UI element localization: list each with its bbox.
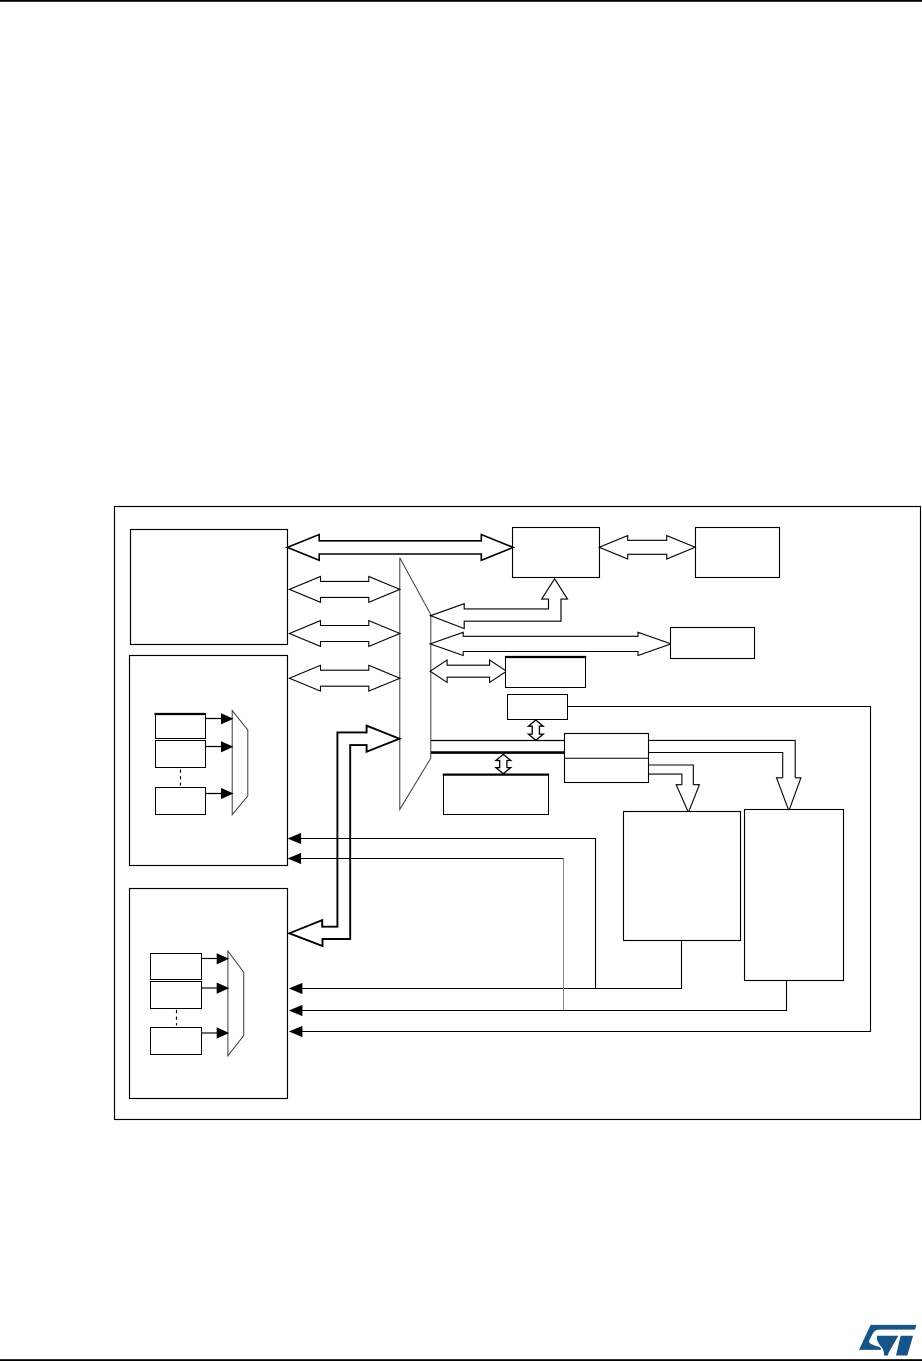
wire horizontal into peripheral-group-1 #2 xyxy=(300,858,564,860)
wide bus arrow CPU-to-USB block xyxy=(287,535,513,561)
wire tall-right-box feedback down and left xyxy=(302,981,787,1011)
arrowhead into peripheral-group-2 (register feedback) xyxy=(289,1026,303,1037)
sub-block periph1-C xyxy=(156,788,206,815)
page bottom rule xyxy=(0,1359,922,1361)
block RAM xyxy=(506,657,586,688)
divider of memory interface box xyxy=(565,757,648,759)
arrowhead into peripheral-group-1 #2 xyxy=(288,853,302,864)
ST logo xyxy=(859,1325,917,1356)
block USB transceiver (top-right) xyxy=(696,528,780,578)
bus top line (funnel to program-memory box) xyxy=(431,740,566,742)
block USB interface (top-middle) xyxy=(513,528,600,578)
long double arrow funnel-to-interface box xyxy=(430,632,671,655)
double arrow USB-to-transceiver xyxy=(599,536,695,559)
block CPU (top-left) xyxy=(131,530,288,645)
wire memory-interface to left down-arrow lower xyxy=(648,774,682,785)
wire branch up to peripheral-group-1 (from tall-right feedback, grey vertical) xyxy=(563,859,565,1011)
wire periph1-B to mux xyxy=(205,746,221,748)
block memory interface (divided) xyxy=(565,734,649,783)
wire register feedback: right, down, left into peripheral-group-2 xyxy=(302,707,871,1032)
block interface (right of long arrow) xyxy=(671,628,755,659)
wire periph1-A to mux xyxy=(205,718,221,720)
mux trapezoid of peripheral-group-1 xyxy=(232,711,248,815)
double arrow CPU-to-funnel #2 xyxy=(289,621,400,647)
left hollow down-arrowhead xyxy=(676,785,699,813)
vertical double arrow register-to-bus xyxy=(528,720,543,740)
block peripheral-group-2 (bottom-left) xyxy=(130,889,288,1099)
arrowhead into peripheral-group-1 #1 xyxy=(288,833,302,844)
sub-block periph1-A xyxy=(156,714,206,739)
double arrow peripherals1-to-funnel xyxy=(289,665,400,691)
program memory bold top edge xyxy=(443,773,550,775)
block peripherals (tall right) xyxy=(745,810,844,981)
arrowhead into peripheral-group-2 (tall-right feedback) xyxy=(289,1005,303,1016)
RAM bold top edge xyxy=(505,656,586,658)
bus bottom bold line xyxy=(431,751,566,754)
wire periph2-A to mux xyxy=(202,958,217,960)
dashed continuation between periph1-B and periph1-C xyxy=(180,770,182,786)
bus funnel trapezoid (address/data bus mux) xyxy=(400,558,431,810)
dashed continuation between periph2-B and periph2-C xyxy=(176,1010,178,1026)
wire periph1-C to mux xyxy=(205,793,221,795)
block program memory xyxy=(444,775,549,815)
mux trapezoid of peripheral-group-2 xyxy=(228,951,244,1056)
block port timers (tall left) xyxy=(624,812,741,941)
page top rule xyxy=(0,0,922,2)
right hollow down-arrowhead xyxy=(777,778,801,811)
wire memory-interface to left down-arrow upper xyxy=(648,765,693,785)
wire periph2-C to mux xyxy=(202,1032,217,1034)
outer block-diagram frame xyxy=(115,507,921,1120)
wire branch up to peripheral-group-1 (from tall-left feedback) xyxy=(300,839,596,989)
vertical double arrow bus-to-program-memory xyxy=(496,754,511,774)
wire bus continuation upper (to right down-arrow) xyxy=(648,740,795,777)
small double arrow funnel-to-RAM xyxy=(430,660,506,682)
sub-block periph2-A xyxy=(151,954,202,980)
sub-block periph1-B xyxy=(156,741,206,768)
bent double arrow: bus funnel to USB block bottom xyxy=(431,579,568,629)
block register (below RAM) xyxy=(508,695,568,720)
block peripheral-group-1 (middle-left) xyxy=(130,656,288,866)
periph1-A bold top edge xyxy=(155,713,206,715)
sub-block periph2-C xyxy=(151,1028,202,1055)
sub-block periph2-B xyxy=(151,982,202,1009)
double arrow CPU-to-funnel #1 xyxy=(289,577,400,603)
bold bent double arrow: bus funnel to bottom-left peripheral group xyxy=(289,726,399,946)
wire tall-left-box feedback down and left xyxy=(302,941,682,989)
wire bus continuation lower (to right down-arrow) xyxy=(648,753,783,778)
wire periph2-B to mux xyxy=(202,987,217,989)
arrowhead into peripheral-group-2 (tall-left feedback) xyxy=(289,983,303,994)
